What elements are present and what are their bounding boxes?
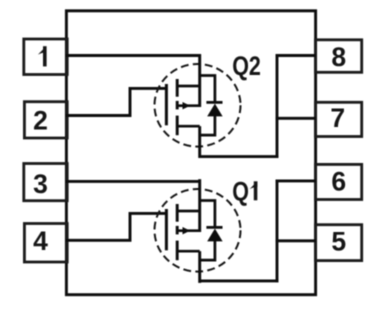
svg-text:3: 3	[33, 169, 48, 199]
svg-text:6: 6	[331, 166, 346, 196]
wire Q1 drain line	[199, 279, 279, 282]
svg-text:Q: Q	[232, 177, 249, 207]
wire pin2 to Q2 gate	[66, 88, 167, 115]
drain bus Q2 vertical	[276, 54, 279, 158]
pin 5 box	[315, 225, 361, 261]
pin 8 box	[315, 40, 361, 73]
svg-text:4: 4	[33, 226, 48, 256]
pin 4 box	[24, 224, 67, 263]
wire Q2 drain line	[199, 155, 279, 158]
svg-text:8: 8	[331, 42, 346, 72]
pin 1 box	[24, 39, 67, 75]
pin 2 box	[24, 102, 67, 138]
wire pin3 to Q1 source	[66, 180, 201, 183]
wire pin5	[276, 239, 316, 242]
svg-text:5: 5	[331, 227, 346, 257]
wire pin8	[276, 54, 316, 57]
pin 3 box	[24, 164, 67, 201]
wire pin6	[276, 179, 316, 182]
transistor Q1	[155, 179, 241, 283]
package outline	[66, 11, 315, 295]
drain bus Q1 vertical	[276, 180, 279, 283]
svg-text:7: 7	[330, 103, 345, 133]
svg-text:2: 2	[33, 106, 48, 136]
pin 1 number	[38, 46, 47, 66]
wire pin7	[276, 117, 316, 120]
wire pin4 to Q1 gate	[66, 213, 167, 240]
wire pin1 to Q2 source	[66, 54, 201, 57]
pin 7 box	[315, 102, 361, 136]
svg-text:Q2: Q2	[232, 52, 261, 82]
pin 6 box	[315, 164, 361, 199]
transistor Q2	[155, 54, 241, 158]
